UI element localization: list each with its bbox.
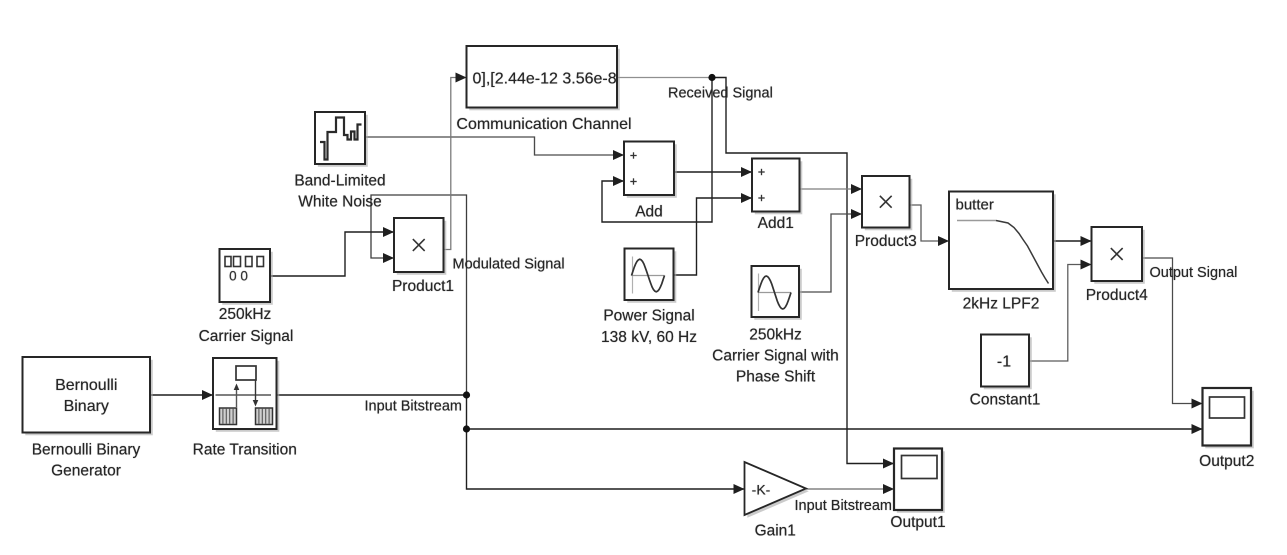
- svg-text:Power Signal: Power Signal: [603, 308, 694, 325]
- svg-text:butter: butter: [956, 197, 994, 214]
- block Output1 scope: [894, 449, 945, 513]
- svg-text:250kHz: 250kHz: [749, 327, 802, 344]
- junction dot Received Signal: [708, 74, 715, 81]
- svg-text:Product4: Product4: [1086, 287, 1148, 304]
- svg-text:Product1: Product1: [392, 278, 454, 295]
- block Rate Transition: [213, 358, 279, 432]
- svg-text:Add1: Add1: [758, 215, 794, 232]
- svg-text:Binary: Binary: [64, 398, 109, 415]
- wire Received Signal branch to Add port 2: [602, 78, 712, 223]
- svg-text:0 0: 0 0: [229, 269, 248, 284]
- svg-text:250kHz: 250kHz: [219, 306, 272, 323]
- block Gain1 triangle: [745, 462, 809, 518]
- svg-text:Output2: Output2: [1199, 453, 1254, 470]
- block Output2 scope: [1203, 388, 1254, 448]
- svg-text:138 kV, 60 Hz: 138 kV, 60 Hz: [601, 329, 697, 346]
- wire Input Bitstream down-branch to Gain1: [467, 429, 745, 494]
- wire junction to junction vertical: [466, 395, 468, 429]
- block Add1: [752, 159, 802, 215]
- wire Product3 to 2kHz LPF2: [910, 205, 950, 246]
- block 250kHz Carrier Signal with Phase Shift: [752, 266, 802, 320]
- block Constant1: [981, 335, 1032, 390]
- svg-text:Product3: Product3: [855, 233, 917, 250]
- block Product1: [394, 218, 446, 275]
- svg-text:Bernoulli: Bernoulli: [55, 377, 117, 394]
- block Add: [624, 142, 677, 198]
- svg-text:Generator: Generator: [51, 463, 121, 480]
- svg-text:Rate Transition: Rate Transition: [193, 442, 297, 459]
- block Product4: [1092, 227, 1145, 284]
- wire Output Signal: Product4 to Output2 port 1: [1142, 258, 1203, 409]
- wire Add1 to Product3 port 1: [800, 184, 863, 194]
- block Band-Limited White Noise: [315, 112, 368, 167]
- svg-text:Gain1: Gain1: [755, 523, 796, 540]
- svg-text:Phase Shift: Phase Shift: [736, 369, 816, 386]
- block Product3: [862, 176, 912, 230]
- wire 250kHz Carrier Signal to Product1 port 1: [270, 227, 394, 276]
- wire Constant1 to Product4 port 2: [1029, 260, 1092, 362]
- svg-text:-K-: -K-: [752, 482, 771, 498]
- block Power Signal: [625, 249, 677, 303]
- block Bernoulli Binary Generator: [23, 357, 153, 435]
- junction dot Input Bitstream lower: [463, 425, 470, 432]
- svg-text:Modulated Signal: Modulated Signal: [453, 257, 565, 273]
- wire Bernoulli to Rate Transition: [150, 390, 213, 400]
- svg-text:Constant1: Constant1: [970, 392, 1041, 409]
- wire Carrier with Phase Shift to Product3 port 2: [799, 209, 862, 292]
- svg-text:White Noise: White Noise: [298, 194, 382, 211]
- svg-text:Output1: Output1: [890, 514, 945, 531]
- svg-text:Input Bitstream: Input Bitstream: [364, 399, 462, 415]
- svg-text:Output Signal: Output Signal: [1150, 265, 1238, 281]
- wire Gain1 to Output1 port 2: [806, 484, 894, 494]
- wire Rate Transition to Input Bitstream junction: [277, 394, 467, 396]
- wire Power Signal to Add1 port 2: [674, 193, 753, 275]
- svg-text:-1: -1: [997, 354, 1011, 371]
- wire Modulated Signal: Product1 to Communication Channel: [444, 73, 467, 250]
- svg-text:Carrier Signal: Carrier Signal: [199, 328, 294, 345]
- wire Communication Channel output to junction: [617, 77, 712, 79]
- wire Received Signal branch to Output1 port 1: [712, 78, 894, 469]
- block 250kHz Carrier Signal: [220, 249, 273, 305]
- block 2kHz LPF2 butterworth filter: [949, 192, 1056, 292]
- block Communication Channel: [467, 46, 620, 110]
- svg-text:Received Signal: Received Signal: [668, 86, 773, 102]
- svg-text:Carrier Signal with: Carrier Signal with: [712, 348, 839, 365]
- wire Band-Limited White Noise to Add port 1: [365, 137, 624, 160]
- svg-text:0],[2.44e-12 3.56e-8: 0],[2.44e-12 3.56e-8: [473, 71, 617, 88]
- svg-text:Communication Channel: Communication Channel: [456, 116, 631, 133]
- svg-text:Input Bitstream: Input Bitstream: [795, 498, 893, 514]
- svg-text:Bernoulli Binary: Bernoulli Binary: [32, 442, 141, 459]
- svg-text:2kHz LPF2: 2kHz LPF2: [963, 296, 1040, 313]
- wire Input Bitstream up-branch to Product1 port 2: [371, 195, 467, 395]
- svg-text:Add: Add: [635, 204, 663, 221]
- wire Input Bitstream long line to Output2 port 2: [467, 424, 1203, 434]
- svg-text:Band-Limited: Band-Limited: [294, 173, 385, 190]
- wire 2kHz LPF2 to Product4 port 1: [1053, 236, 1092, 246]
- wire Add to Add1 port 1: [674, 167, 752, 177]
- junction dot Input Bitstream upper: [463, 391, 470, 398]
